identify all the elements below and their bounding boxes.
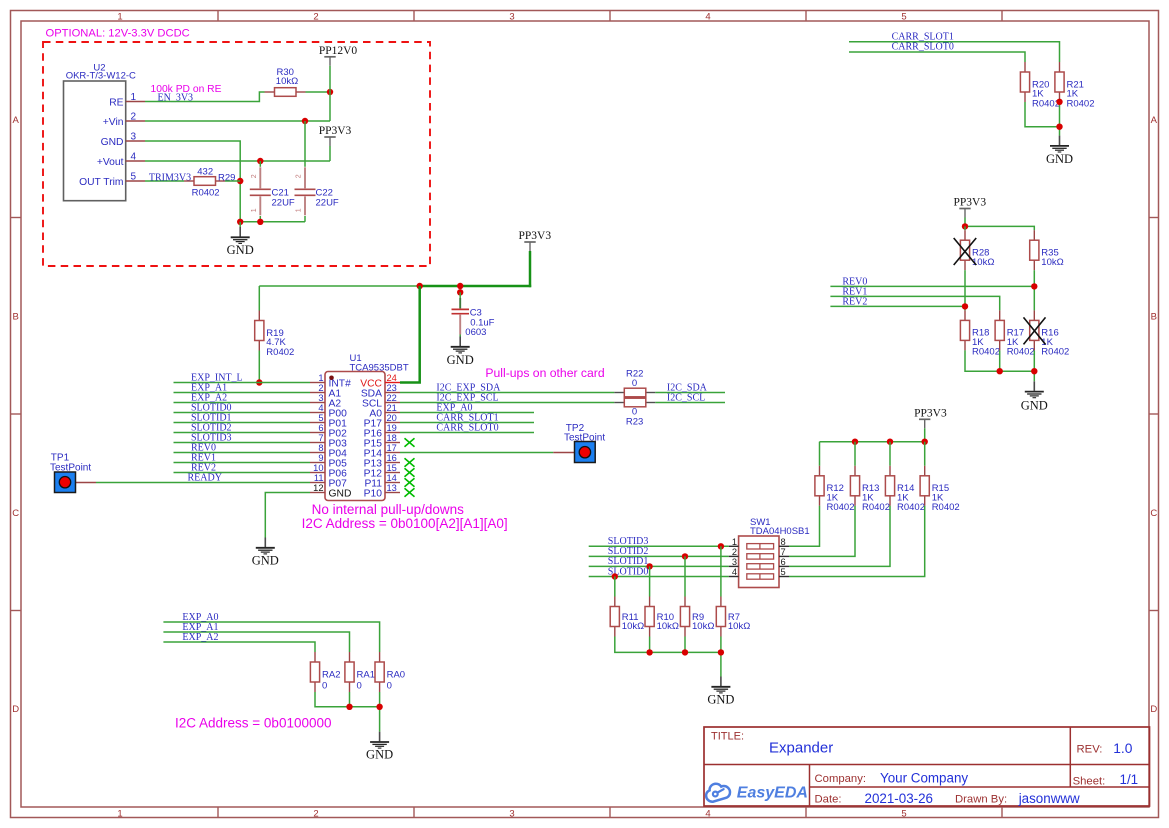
svg-text:9: 9 bbox=[318, 453, 323, 463]
junction SLOTID0/pulldown bbox=[612, 573, 618, 579]
U2 pin 2 (+Vin) bbox=[103, 112, 145, 129]
ground SLOT GND bbox=[707, 677, 734, 707]
wire R11 top bbox=[614, 577, 616, 597]
SW1 pin 8 bbox=[779, 537, 789, 547]
SW1 pin 1 bbox=[729, 537, 739, 547]
svg-text:22: 22 bbox=[387, 393, 397, 403]
svg-text:1: 1 bbox=[117, 11, 122, 22]
svg-text:1: 1 bbox=[251, 208, 258, 212]
U1 pin 20 (P17) bbox=[364, 413, 400, 430]
SW1 pin 2 bbox=[729, 547, 739, 557]
svg-text:23: 23 bbox=[387, 383, 397, 393]
svg-text:5: 5 bbox=[781, 567, 786, 577]
wire dcdc ground bus bbox=[240, 221, 305, 223]
svg-text:4: 4 bbox=[131, 152, 137, 163]
svg-text:A: A bbox=[1151, 115, 1158, 126]
junction slotbus/R7 bbox=[718, 649, 724, 655]
svg-text:432: 432 bbox=[197, 167, 213, 178]
wire R19 branch from bus bbox=[258, 286, 260, 311]
wire SLOTID1 to U1 bbox=[174, 422, 311, 424]
wire READY / TP1 to U1 pin11 bbox=[96, 482, 310, 484]
wire CARR_SLOT1 stub bbox=[400, 422, 534, 424]
ruler letters left bbox=[12, 115, 19, 715]
svg-text:1.0: 1.0 bbox=[1113, 741, 1133, 756]
junction rev bus/R28 bbox=[962, 223, 968, 229]
resistor R20 bbox=[1020, 62, 1060, 109]
resistor R21 bbox=[1055, 62, 1095, 109]
SW1 pin 5 bbox=[779, 567, 789, 577]
resistor R7 bbox=[716, 597, 750, 637]
svg-text:1: 1 bbox=[318, 373, 323, 383]
svg-text:10kΩ: 10kΩ bbox=[276, 76, 298, 87]
U1 pin 19 (P16) bbox=[364, 423, 400, 440]
ground RA GND bbox=[366, 732, 393, 762]
svg-text:3: 3 bbox=[732, 557, 737, 567]
svg-text:Company:: Company: bbox=[815, 773, 867, 785]
wire +Vout wire bbox=[145, 160, 330, 162]
test point TP2 bbox=[553, 423, 605, 463]
svg-text:R0402: R0402 bbox=[897, 502, 925, 513]
svg-text:0: 0 bbox=[322, 681, 327, 692]
svg-text:RA1: RA1 bbox=[357, 670, 375, 681]
svg-text:Drawn By:: Drawn By: bbox=[955, 794, 1007, 806]
junction revbus/R17 bbox=[997, 368, 1003, 374]
svg-text:OKR-T/3-W12-C: OKR-T/3-W12-C bbox=[66, 71, 136, 82]
junction SLOTID3/pulldown bbox=[718, 543, 724, 549]
svg-text:Pull-ups on other card: Pull-ups on other card bbox=[485, 366, 604, 380]
svg-text:4: 4 bbox=[318, 403, 323, 413]
svg-text:A: A bbox=[13, 115, 20, 126]
wire SLOTID1 wire bbox=[589, 565, 729, 567]
ground dcdc GND bbox=[227, 227, 254, 257]
wire R13 to SW pin7 bbox=[789, 506, 855, 557]
svg-text:I2C Address = 0b0100000: I2C Address = 0b0100000 bbox=[175, 716, 332, 731]
U1 pin 22 (SCL) bbox=[362, 393, 400, 410]
wire SLOTID3 to U1 bbox=[174, 442, 311, 444]
junction R19/EXP_INT_L bbox=[256, 379, 262, 385]
wire CARR_SLOT1 wire bbox=[849, 42, 1060, 62]
wire +Vin wire bbox=[145, 120, 330, 122]
wire slot bottom bus bbox=[615, 637, 721, 677]
svg-text:R0402: R0402 bbox=[1041, 347, 1069, 358]
U1 pin 17 (P14) bbox=[364, 443, 400, 460]
svg-text:22UF: 22UF bbox=[316, 197, 339, 208]
capacitor C22 bbox=[295, 167, 339, 215]
svg-text:5: 5 bbox=[901, 11, 906, 22]
power flag PP3V3 sw (PP3V3) bbox=[914, 408, 947, 429]
resistor R10 bbox=[645, 597, 679, 637]
svg-text:R0402: R0402 bbox=[827, 502, 855, 513]
wire R21 down bbox=[1059, 102, 1061, 136]
SW1 pin 6 bbox=[779, 557, 789, 567]
resistor RA1 bbox=[345, 652, 375, 692]
svg-text:4: 4 bbox=[732, 567, 737, 577]
svg-text:18: 18 bbox=[387, 433, 397, 443]
DNP cross over R16 bbox=[1024, 317, 1046, 344]
wire PP3V3 mid stem (thick) bbox=[529, 251, 532, 287]
svg-text:8: 8 bbox=[318, 443, 323, 453]
SW1 pin 4 bbox=[729, 567, 739, 577]
wire R12 to SW pin8 bbox=[789, 506, 820, 547]
wire PP3V3 dcdc stem bbox=[329, 146, 331, 161]
svg-text:6: 6 bbox=[781, 557, 786, 567]
svg-text:R0402: R0402 bbox=[862, 502, 890, 513]
no-connect X pin18 bbox=[405, 438, 415, 446]
junction slotbus/R9 bbox=[682, 649, 688, 655]
svg-text:5: 5 bbox=[131, 172, 137, 183]
U1 pin 11 (P07) bbox=[310, 473, 347, 490]
wire rev bottom bus bbox=[965, 350, 1034, 381]
resistor R30 bbox=[265, 67, 306, 96]
wire R14 to SW pin6 bbox=[789, 506, 890, 567]
svg-text:+Vout: +Vout bbox=[97, 157, 124, 168]
resistor R15 bbox=[920, 466, 960, 513]
resistor R14 bbox=[885, 466, 925, 513]
SW1 pin 3 bbox=[729, 557, 739, 567]
wire EXP_A1 to U1 bbox=[174, 392, 311, 394]
U1 pin 16 (P13) bbox=[364, 453, 400, 470]
capacitor C21 bbox=[250, 167, 295, 215]
junction bus/C21 bbox=[257, 219, 263, 225]
wire RA0 bottom bbox=[379, 692, 381, 707]
resistor R16 bbox=[1030, 310, 1070, 357]
svg-text:13: 13 bbox=[387, 483, 397, 493]
wire R14 top bbox=[889, 442, 891, 466]
wire R7 top bbox=[720, 546, 722, 596]
svg-text:OPTIONAL: 12V-3.3V DCDC: OPTIONAL: 12V-3.3V DCDC bbox=[46, 28, 190, 40]
SW1 element row 4 bbox=[747, 574, 774, 579]
junction rabus/RA1 bbox=[346, 704, 352, 710]
svg-text:10kΩ: 10kΩ bbox=[972, 257, 994, 268]
U1 pin 18 (P15) bbox=[364, 433, 400, 450]
svg-text:D: D bbox=[12, 704, 19, 715]
wire C3 to gnd bbox=[459, 335, 461, 337]
wire C21 bottom bbox=[259, 216, 261, 222]
junction bus/C3 a bbox=[457, 283, 463, 289]
resistor R23 bbox=[614, 398, 655, 427]
wire REV0 wire bbox=[830, 285, 1034, 287]
resistor RA0 bbox=[375, 652, 405, 692]
junction rabus/RA0 bbox=[376, 704, 382, 710]
svg-text:2: 2 bbox=[313, 809, 318, 820]
svg-text:3: 3 bbox=[131, 132, 137, 143]
wire REV0 to U1 bbox=[174, 452, 311, 454]
svg-text:1: 1 bbox=[117, 809, 122, 820]
wire REV1 to U1 bbox=[174, 462, 311, 464]
U1 pin 21 (A0) bbox=[369, 403, 400, 420]
title block frame bbox=[704, 727, 1150, 806]
wire R15 top bbox=[924, 442, 926, 466]
no-connect X pin13 bbox=[405, 488, 415, 496]
svg-text:10kΩ: 10kΩ bbox=[728, 621, 750, 632]
wire SLOTID0 to U1 bbox=[174, 412, 311, 414]
wire U1 pin12 to GND bbox=[265, 493, 310, 538]
wire ra bottom bus bbox=[315, 692, 380, 732]
svg-text:Date:: Date: bbox=[815, 794, 842, 806]
svg-text:R0402: R0402 bbox=[1007, 347, 1035, 358]
resistor R11 bbox=[610, 597, 644, 637]
svg-text:GND: GND bbox=[227, 243, 254, 257]
ground CARR GND bbox=[1046, 136, 1073, 167]
U1 pin 9 (P05) bbox=[310, 453, 347, 470]
svg-text:20: 20 bbox=[387, 413, 397, 423]
junction REV0/R35 bbox=[1031, 283, 1037, 289]
U1 pin 4 (P00) bbox=[310, 403, 347, 420]
svg-text:PP3V3: PP3V3 bbox=[914, 408, 947, 420]
wire VCC drop to U1 pin24 (thick) bbox=[400, 286, 420, 383]
ruler numbers top bbox=[117, 11, 906, 22]
junction REV2/R28 bbox=[962, 303, 968, 309]
svg-text:2: 2 bbox=[732, 547, 737, 557]
wire PP12V0 down to +Vin row bbox=[329, 92, 331, 121]
svg-text:PP3V3: PP3V3 bbox=[518, 230, 551, 242]
wire SLOTID2 to U1 bbox=[174, 432, 311, 434]
svg-text:No internal pull-up/downs: No internal pull-up/downs bbox=[312, 502, 465, 517]
svg-text:1: 1 bbox=[131, 92, 137, 103]
svg-text:1: 1 bbox=[296, 208, 303, 212]
svg-text:GND: GND bbox=[329, 489, 352, 500]
resistor R12 bbox=[815, 466, 855, 513]
wire EXP_A0 wire bbox=[163, 622, 379, 652]
U2 pin 5 (OUT Trim) bbox=[79, 172, 145, 189]
junction R29/GND column bbox=[237, 178, 243, 184]
svg-text:6: 6 bbox=[318, 423, 323, 433]
wire PP12V0 stem bbox=[329, 66, 331, 92]
svg-text:R0402: R0402 bbox=[972, 347, 1000, 358]
svg-text:1/1: 1/1 bbox=[1120, 772, 1139, 787]
wire P14 to TP2 bbox=[400, 452, 553, 454]
wire SLOTID2 wire bbox=[589, 555, 729, 557]
resistor RA2 bbox=[310, 652, 340, 692]
junction gnd junction tr bbox=[1056, 124, 1062, 130]
resistor R28 bbox=[960, 230, 994, 270]
svg-text:TestPoint: TestPoint bbox=[564, 432, 605, 443]
resistor R9 bbox=[680, 597, 714, 637]
ruler numbers bottom bbox=[117, 809, 906, 820]
test point TP1 bbox=[50, 452, 96, 492]
wire R13 top bbox=[854, 442, 856, 466]
svg-text:TCA9535DBT: TCA9535DBT bbox=[350, 363, 409, 374]
wire R17 bottom bbox=[999, 350, 1001, 371]
svg-text:GND: GND bbox=[1021, 399, 1048, 413]
wire REV2 wire bbox=[830, 305, 965, 307]
regulator U2 body bbox=[64, 81, 126, 201]
svg-text:R23: R23 bbox=[626, 416, 643, 427]
wire OUT Trim wire bbox=[145, 180, 184, 182]
ruler letters right bbox=[1150, 115, 1157, 715]
wire I2C_SCL out bbox=[655, 402, 725, 404]
U1 pin 2 (A1) bbox=[310, 383, 341, 400]
ground U1 GND bbox=[252, 538, 279, 568]
power flag PP3V3 dcdc (PP3V3) bbox=[319, 125, 352, 146]
wire R16 bottom bbox=[1033, 350, 1035, 371]
wire R9 top bbox=[684, 556, 686, 596]
svg-text:TITLE:: TITLE: bbox=[711, 731, 744, 743]
U1 pin 5 (P01) bbox=[310, 413, 347, 430]
svg-text:10kΩ: 10kΩ bbox=[1041, 257, 1063, 268]
wire REV2 to U1 bbox=[174, 472, 311, 474]
wire C22 bottom bbox=[304, 216, 306, 222]
svg-text:RE: RE bbox=[109, 98, 123, 109]
wire R7 bottom bbox=[720, 637, 722, 653]
svg-text:2: 2 bbox=[131, 112, 137, 123]
svg-text:24: 24 bbox=[387, 373, 397, 383]
svg-text:2: 2 bbox=[296, 174, 303, 178]
wire rev top bus bbox=[965, 226, 1034, 230]
no-connect X pin15 bbox=[405, 468, 415, 476]
svg-text:GND: GND bbox=[447, 353, 474, 367]
svg-text:B: B bbox=[13, 311, 19, 322]
junction R21 pin/wire bbox=[1056, 99, 1062, 105]
svg-text:0: 0 bbox=[357, 681, 362, 692]
junction swbus/R14 bbox=[887, 439, 893, 445]
U1 pin 23 (SDA) bbox=[361, 383, 400, 400]
svg-text:3: 3 bbox=[318, 393, 323, 403]
SW1 element row 1 bbox=[747, 544, 774, 549]
resistor R19 bbox=[255, 311, 295, 358]
wire I2C_SDA out bbox=[655, 392, 725, 394]
wire R30 to PP12V0 column bbox=[306, 91, 331, 93]
svg-text:4: 4 bbox=[705, 11, 710, 22]
svg-text:10kΩ: 10kΩ bbox=[692, 621, 714, 632]
svg-text:10kΩ: 10kΩ bbox=[622, 621, 644, 632]
svg-text:R0402: R0402 bbox=[266, 347, 294, 358]
junction SLOTID1/pulldown bbox=[646, 563, 652, 569]
wire C21 branch bbox=[259, 161, 261, 167]
svg-text:15: 15 bbox=[387, 463, 397, 473]
svg-text:R0402: R0402 bbox=[1067, 98, 1095, 109]
svg-text:C: C bbox=[12, 508, 19, 519]
junction +Vin/C22 bbox=[302, 118, 308, 124]
svg-text:Your Company: Your Company bbox=[880, 771, 968, 786]
svg-text:12: 12 bbox=[313, 483, 323, 493]
svg-text:2021-03-26: 2021-03-26 bbox=[865, 791, 934, 806]
svg-text:5: 5 bbox=[901, 809, 906, 820]
svg-text:1: 1 bbox=[732, 537, 737, 547]
wire SLOTID0 wire bbox=[589, 576, 729, 578]
wire R19 to EXP_INT_L bbox=[258, 351, 260, 383]
wire VCC bus thick bbox=[420, 285, 532, 288]
junction bus/VCC drop bbox=[417, 283, 423, 289]
junction swbus/R15 bbox=[922, 439, 928, 445]
wire sw top bus bbox=[820, 441, 925, 443]
wire CARR_SLOT0 stub bbox=[400, 432, 534, 434]
wire VCC bus thin left bbox=[259, 285, 419, 287]
SW1 element row 2 bbox=[747, 554, 774, 559]
svg-text:10kΩ: 10kΩ bbox=[657, 621, 679, 632]
wire R12 top bbox=[819, 442, 821, 466]
no-connect X pin16 bbox=[405, 458, 415, 466]
junction slotbus/R10 bbox=[646, 649, 652, 655]
svg-text:B: B bbox=[1151, 311, 1157, 322]
junction revbus/R16 bbox=[1031, 368, 1037, 374]
svg-text:4: 4 bbox=[705, 809, 710, 820]
U1 pin 12 (GND) bbox=[310, 483, 351, 500]
junction SLOTID2/pulldown bbox=[682, 553, 688, 559]
svg-text:R0402: R0402 bbox=[192, 188, 220, 199]
U1 pin 13 (P10) bbox=[364, 483, 400, 500]
svg-text:C: C bbox=[1150, 508, 1157, 519]
svg-text:D: D bbox=[1150, 704, 1157, 715]
wire dcdc gnd drop bbox=[239, 222, 241, 227]
svg-text:8: 8 bbox=[781, 537, 786, 547]
ground C3 GND bbox=[447, 337, 474, 368]
svg-text:GND: GND bbox=[252, 554, 279, 568]
no-connect X pin14 bbox=[405, 478, 415, 486]
svg-text:+Vin: +Vin bbox=[103, 117, 124, 128]
svg-text:TestPoint: TestPoint bbox=[50, 462, 91, 473]
resistor R22 bbox=[614, 368, 655, 396]
svg-text:TDA04H0SB1: TDA04H0SB1 bbox=[750, 526, 810, 537]
U1 pin 3 (A2) bbox=[310, 393, 341, 410]
svg-text:17: 17 bbox=[387, 443, 397, 453]
wire EXP_A0 stub bbox=[400, 412, 534, 414]
svg-text:3: 3 bbox=[509, 809, 514, 820]
svg-text:7: 7 bbox=[318, 433, 323, 443]
junction +Vout/C21 bbox=[257, 158, 263, 164]
svg-text:14: 14 bbox=[387, 473, 397, 483]
resistor R35 bbox=[1030, 230, 1064, 270]
SW1 element row 3 bbox=[747, 564, 774, 569]
svg-text:22UF: 22UF bbox=[272, 197, 295, 208]
wire R28 to REV2 bbox=[964, 270, 966, 310]
svg-text:EXP_A2: EXP_A2 bbox=[182, 632, 218, 643]
U1 pin 7 (P03) bbox=[310, 433, 347, 450]
U2 pin 4 (+Vout) bbox=[97, 152, 145, 169]
svg-text:P10: P10 bbox=[364, 489, 383, 500]
power flag PP3V3 mid (PP3V3) bbox=[518, 230, 551, 251]
svg-text:10: 10 bbox=[313, 463, 323, 473]
U1 pin 1 (INT#) bbox=[310, 373, 351, 390]
svg-text:RA2: RA2 bbox=[322, 670, 340, 681]
junction bus/C3 b bbox=[457, 289, 463, 295]
svg-text:GND: GND bbox=[1046, 152, 1073, 166]
wire PP3V3 sw stem bbox=[924, 428, 926, 441]
resistor R18 bbox=[960, 310, 1000, 357]
U1 pin 10 (P06) bbox=[310, 463, 347, 480]
svg-text:EasyEDA: EasyEDA bbox=[737, 784, 808, 801]
svg-text:0: 0 bbox=[387, 681, 392, 692]
wire EXP_A2 wire bbox=[163, 642, 315, 652]
wire R10 top bbox=[649, 566, 651, 596]
svg-text:19: 19 bbox=[387, 423, 397, 433]
wire EXP_A2 to U1 bbox=[174, 402, 311, 404]
svg-text:CARR_SLOT0: CARR_SLOT0 bbox=[892, 42, 954, 53]
svg-text:2: 2 bbox=[313, 11, 318, 22]
svg-text:R0402: R0402 bbox=[1032, 98, 1060, 109]
svg-text:PP3V3: PP3V3 bbox=[953, 197, 986, 209]
wire RA1 bottom bbox=[349, 692, 351, 707]
power flag PP12V0 (PP12V0) bbox=[319, 45, 358, 66]
wire R15 to SW pin5 bbox=[789, 506, 925, 577]
svg-text:I2C_SCL: I2C_SCL bbox=[667, 393, 705, 404]
wire EXP_INT_L to U1 bbox=[174, 382, 311, 384]
svg-text:GND: GND bbox=[707, 693, 734, 707]
svg-text:0603: 0603 bbox=[465, 327, 486, 338]
wire R9 bottom bbox=[684, 637, 686, 653]
wire CARR_SLOT0 wire bbox=[849, 52, 1025, 62]
wire RE to R30 corner bbox=[145, 92, 265, 102]
svg-text:I2C Address = 0b0100[A2][A1][A: I2C Address = 0b0100[A2][A1][A0] bbox=[302, 516, 508, 531]
U2 pin 1 (RE) bbox=[109, 92, 145, 109]
capacitor C3 bbox=[452, 298, 495, 338]
svg-text:3: 3 bbox=[509, 11, 514, 22]
U1 pin 6 (P02) bbox=[310, 423, 347, 440]
U2 pin 3 (GND) bbox=[101, 132, 145, 149]
U1 pin 14 (P11) bbox=[364, 473, 400, 490]
svg-text:PP12V0: PP12V0 bbox=[319, 45, 358, 57]
resistor R13 bbox=[850, 466, 890, 513]
